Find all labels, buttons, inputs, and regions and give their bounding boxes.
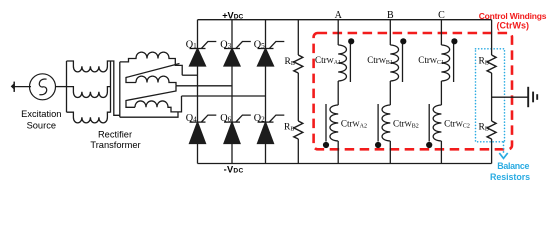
transformer primary right bus [110, 61, 112, 113]
resistor RB left lower [294, 121, 303, 139]
svg-text:RB: RB [479, 123, 489, 133]
svg-text:CtrWA2: CtrWA2 [341, 118, 367, 129]
control winding CtrW B2 [375, 104, 390, 148]
transformer inter-bus link [111, 61, 120, 115]
excitation source terminal bar [13, 82, 15, 92]
wire +VDC top rail [198, 19, 492, 21]
thyristor Q5 [258, 42, 285, 67]
excitation source sine glyph [39, 79, 46, 95]
svg-text:Resistors: Resistors [490, 172, 530, 182]
svg-text:Rectifier: Rectifier [98, 129, 132, 139]
svg-text:-VDC: -VDC [224, 164, 244, 174]
resistor RB right lower [487, 121, 496, 139]
svg-text:Q3: Q3 [220, 39, 231, 50]
wire phase tap 3 [182, 95, 266, 97]
transformer primary winding P1 [67, 61, 111, 72]
svg-text:CtrWB1: CtrWB1 [367, 55, 393, 66]
control winding CtrW C1 [441, 38, 457, 82]
svg-text:CtrWC2: CtrWC2 [444, 118, 470, 129]
svg-text:Q6: Q6 [220, 113, 231, 124]
control winding CtrW A1 [338, 38, 354, 82]
control winding CtrW A2 [323, 104, 338, 148]
transformer primary left bus [66, 61, 68, 112]
wire phase tap 1 [182, 74, 197, 76]
wire phase tap 2 [176, 85, 232, 87]
thyristor Q6 [224, 115, 251, 143]
wire source left lead [14, 86, 31, 88]
control winding CtrW C2 [426, 104, 441, 148]
balance resistors blue dotted box [476, 49, 505, 142]
wire ground tap [492, 96, 528, 98]
svg-text:RB: RB [284, 123, 294, 133]
svg-text:RB: RB [285, 57, 295, 67]
svg-text:Q4: Q4 [186, 113, 197, 124]
thyristor Q1 [190, 42, 217, 67]
control windings red dashed box [314, 33, 512, 149]
ground [528, 87, 537, 107]
svg-text:CtrWB2: CtrWB2 [393, 118, 419, 129]
thyristor Q2 [258, 115, 285, 143]
transformer primary winding P3 [67, 112, 111, 123]
svg-text:Control Windings: Control Windings [479, 11, 547, 21]
wire zigzag diagonal D2 [126, 86, 176, 108]
svg-text:CtrWC1: CtrWC1 [418, 55, 444, 66]
resistor RB right upper [487, 55, 496, 73]
transformer secondary winding S3 [135, 96, 182, 112]
svg-text:Excitation: Excitation [21, 109, 61, 119]
wire secondary bottom return [120, 112, 178, 117]
excitation source AC circle [30, 74, 56, 100]
thyristor Q3 [224, 42, 251, 67]
svg-text:Transformer: Transformer [90, 140, 140, 150]
svg-text:Q2: Q2 [254, 113, 265, 124]
excitation source terminal wedge [11, 84, 14, 89]
transformer secondary left bus [119, 62, 121, 117]
svg-text:Q5: Q5 [254, 39, 265, 50]
balance resistors blue arrow [503, 142, 505, 153]
wire bridge leg 1 [197, 20, 199, 164]
thyristor Q4 [190, 115, 217, 143]
transformer secondary winding S2 [136, 76, 176, 86]
wire source to transformer [56, 86, 67, 88]
transformer secondary winding S1 [120, 52, 182, 75]
resistor RB left upper [294, 55, 303, 73]
wire zigzag diagonal D1 [126, 64, 180, 83]
svg-text:RB: RB [479, 57, 489, 67]
svg-text:Source: Source [27, 120, 56, 130]
wire control leg B [389, 20, 391, 164]
svg-text:Q1: Q1 [186, 39, 197, 50]
wire bridge leg 3 [265, 20, 267, 164]
svg-text:+VDC: +VDC [222, 10, 243, 20]
transformer primary winding P2 [67, 87, 111, 98]
control winding CtrW B1 [390, 38, 406, 82]
svg-text:A: A [335, 10, 343, 21]
svg-text:C: C [438, 10, 445, 21]
svg-text:CtrWA1: CtrWA1 [315, 55, 341, 66]
svg-text:Balance: Balance [497, 161, 529, 171]
svg-text:B: B [387, 10, 394, 21]
wire control leg A [337, 20, 339, 164]
wire right balance chain [491, 20, 493, 164]
svg-text:(CtrWs): (CtrWs) [497, 21, 530, 31]
wire -VDC bottom rail [198, 163, 492, 165]
wire bridge leg 2 [231, 20, 233, 164]
wire left balance chain [297, 20, 299, 164]
wire control leg C [440, 20, 442, 164]
